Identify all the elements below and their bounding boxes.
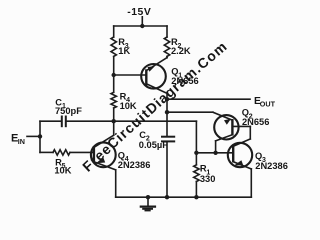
svg-text:2N656: 2N656 [171, 76, 198, 86]
svg-text:1K: 1K [118, 46, 130, 56]
svg-text:0.05µF: 0.05µF [139, 140, 168, 150]
svg-text:10K: 10K [54, 166, 71, 176]
svg-text:330: 330 [200, 174, 216, 184]
svg-text:2N656: 2N656 [242, 117, 269, 127]
svg-text:OUT: OUT [260, 100, 276, 109]
svg-text:-15V: -15V [127, 7, 151, 18]
svg-text:2N2386: 2N2386 [255, 161, 288, 171]
svg-text:2N2386: 2N2386 [118, 160, 151, 170]
svg-text:IN: IN [18, 137, 25, 146]
svg-text:10K: 10K [120, 101, 137, 111]
svg-text:750pF: 750pF [55, 106, 82, 116]
svg-text:2.2K: 2.2K [171, 46, 191, 56]
